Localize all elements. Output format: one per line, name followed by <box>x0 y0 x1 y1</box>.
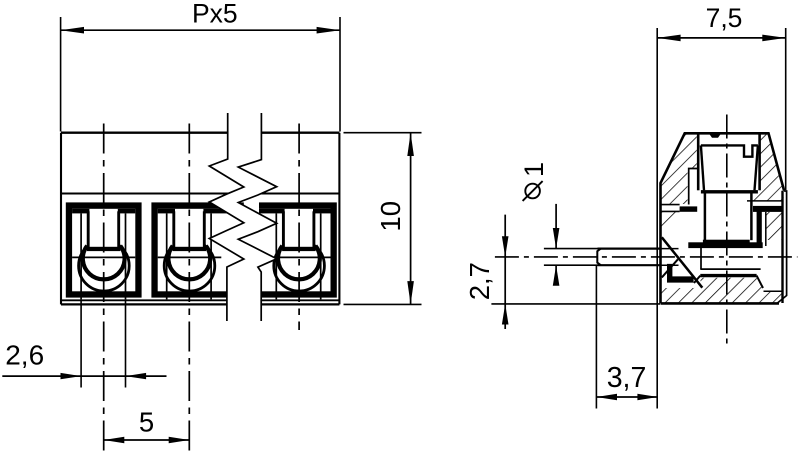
side body right face <box>781 191 783 303</box>
body base edge <box>61 299 339 301</box>
screw recess left wall <box>697 133 700 190</box>
break line left <box>209 113 244 321</box>
recess left step <box>689 169 699 205</box>
svg-text:7,5: 7,5 <box>706 3 743 33</box>
hatch top-right <box>748 134 784 201</box>
body bottom edge <box>61 303 339 305</box>
extension line hole left (2,6) <box>80 299 82 387</box>
dimension 10 <box>344 133 422 305</box>
break erase region <box>209 113 276 321</box>
hatch right column <box>766 212 782 240</box>
screw head right side <box>755 145 758 190</box>
centerline cell 2 <box>188 124 190 454</box>
terminal cell 3 (broken by break lines, no left wall) <box>250 202 337 299</box>
clamp right wall inner line <box>765 212 767 246</box>
clamp right wall <box>757 206 762 246</box>
hatch top-left <box>662 134 697 204</box>
dimension 2,6 <box>2 339 166 379</box>
centerline cell 3 <box>298 124 300 331</box>
svg-text:5: 5 <box>139 407 154 438</box>
hatch left column lower <box>662 212 680 234</box>
screw recess right wall <box>758 133 761 190</box>
wire cavity left wall <box>700 246 702 270</box>
svg-text:2,7: 2,7 <box>464 262 495 300</box>
screw shaft right <box>750 194 753 241</box>
body left edge <box>60 133 62 305</box>
dimension diameter 1 <box>519 162 601 286</box>
dimension 7,5 <box>657 3 786 409</box>
funnel upper diagonal <box>662 237 703 287</box>
body right edge <box>338 133 340 305</box>
screw axis centerline <box>726 115 728 348</box>
side body bottom edge <box>661 302 780 305</box>
clamp bottom band <box>688 242 762 248</box>
extension line hole right (2,6) <box>125 299 127 387</box>
funnel lower diagonal <box>662 259 678 277</box>
svg-text:Px5: Px5 <box>192 0 238 29</box>
side body right outer edge <box>777 191 787 303</box>
terminal cell 1 <box>66 202 142 299</box>
clamp saddle end drops <box>694 276 700 283</box>
hatch bottom band <box>662 278 782 303</box>
housing left flange lines <box>662 204 680 206</box>
solder pin <box>597 249 678 266</box>
body top edge <box>61 131 339 133</box>
break line right <box>238 113 276 321</box>
side body outline <box>661 133 785 303</box>
svg-text:10: 10 <box>375 201 406 232</box>
clamp saddle <box>700 274 756 277</box>
pin centerline <box>495 256 798 258</box>
dimension 2,7 <box>464 215 660 329</box>
dimension Px5 <box>61 0 340 132</box>
svg-text:3,7: 3,7 <box>607 362 647 394</box>
dimension 3,7 <box>596 265 658 408</box>
screw head bottom <box>701 190 758 193</box>
housing right flange top line <box>747 200 782 202</box>
screw shaft left <box>704 194 707 241</box>
svg-text:1: 1 <box>519 162 549 177</box>
hatch boundary line right <box>764 290 782 292</box>
dimension 5 <box>104 407 190 444</box>
top notch mark <box>710 134 721 138</box>
terminal cell 2 (broken by break lines, no right wall) <box>151 202 249 299</box>
housing left flange bar <box>680 206 698 211</box>
wire cavity line <box>700 268 760 270</box>
screw head left side <box>701 145 704 190</box>
screw shaft tip <box>703 240 750 245</box>
screw head top with slot notch <box>701 145 758 156</box>
centerline cell 1 <box>103 124 105 454</box>
housing right flange <box>753 206 782 212</box>
svg-text:2,6: 2,6 <box>5 339 44 370</box>
body step edge <box>61 193 339 195</box>
foot bracket <box>667 264 694 283</box>
